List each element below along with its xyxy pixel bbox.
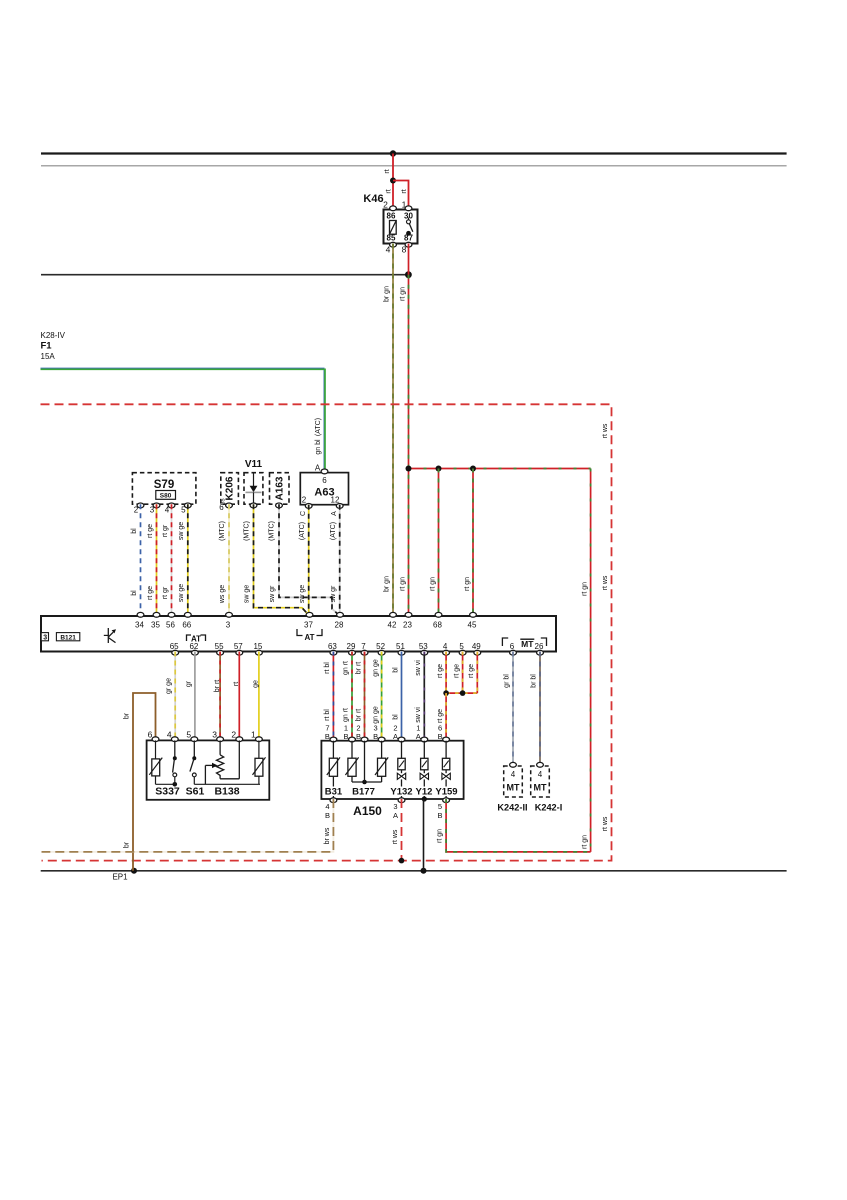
- svg-text:rt ge: rt ge: [147, 524, 154, 538]
- svg-text:A163: A163: [275, 476, 286, 500]
- svg-text:Y132: Y132: [390, 787, 412, 798]
- svg-text:gn bl: gn bl: [315, 439, 322, 455]
- svg-text:Y159: Y159: [435, 787, 457, 798]
- svg-text:rt ws: rt ws: [602, 575, 609, 590]
- svg-text:2: 2: [302, 496, 307, 505]
- svg-text:42: 42: [388, 621, 397, 630]
- svg-text:S61: S61: [186, 786, 205, 798]
- svg-text:6: 6: [510, 642, 515, 651]
- svg-text:bl: bl: [131, 590, 138, 596]
- svg-text:br rt: br rt: [355, 709, 362, 722]
- svg-text:B31: B31: [325, 787, 343, 798]
- svg-text:rt gr: rt gr: [162, 524, 169, 537]
- svg-text:V11: V11: [245, 459, 263, 470]
- svg-text:gr bl: gr bl: [503, 674, 510, 688]
- svg-text:br rt: br rt: [214, 680, 221, 693]
- svg-text:rt gn: rt gn: [399, 577, 406, 591]
- svg-text:br ws: br ws: [324, 827, 331, 844]
- svg-text:B: B: [343, 732, 348, 741]
- svg-text:7: 7: [361, 642, 366, 651]
- svg-text:B: B: [325, 811, 330, 820]
- svg-text:4: 4: [443, 642, 448, 651]
- svg-text:rt gn: rt gn: [581, 582, 588, 596]
- svg-text:rt gr: rt gr: [162, 586, 169, 599]
- svg-text:28: 28: [335, 621, 344, 630]
- svg-text:S337: S337: [155, 786, 180, 798]
- svg-text:br: br: [124, 712, 131, 719]
- svg-text:rt gn: rt gn: [430, 577, 437, 591]
- svg-text:sw ge: sw ge: [299, 585, 306, 603]
- svg-text:3: 3: [43, 634, 47, 641]
- svg-text:rt ge: rt ge: [454, 664, 461, 678]
- svg-text:2: 2: [231, 730, 236, 740]
- svg-text:MT: MT: [507, 783, 520, 793]
- svg-text:5: 5: [438, 802, 442, 811]
- svg-text:MT: MT: [534, 783, 547, 793]
- svg-text:rt: rt: [384, 169, 391, 173]
- svg-text:15: 15: [253, 642, 262, 651]
- svg-text:rt gn: rt gn: [437, 829, 444, 843]
- svg-text:3: 3: [393, 802, 397, 811]
- svg-text:35: 35: [151, 621, 160, 630]
- svg-text:6: 6: [148, 730, 153, 740]
- svg-text:K28-IV: K28-IV: [41, 331, 66, 340]
- svg-text:K206: K206: [225, 476, 236, 500]
- svg-text:(ATC): (ATC): [299, 522, 306, 540]
- svg-text:A: A: [416, 732, 421, 741]
- svg-text:rt: rt: [233, 682, 240, 686]
- svg-text:6: 6: [219, 503, 224, 512]
- svg-text:65: 65: [170, 642, 179, 651]
- svg-text:B: B: [437, 811, 442, 820]
- svg-text:68: 68: [433, 621, 442, 630]
- svg-text:4: 4: [538, 770, 543, 779]
- svg-text:4: 4: [165, 506, 170, 515]
- svg-text:rt: rt: [386, 189, 393, 193]
- svg-text:86: 86: [387, 212, 396, 221]
- svg-text:br rt: br rt: [355, 662, 362, 675]
- svg-text:rt gn: rt gn: [581, 835, 588, 849]
- svg-text:gr ge: gr ge: [166, 678, 173, 694]
- svg-text:rt gn: rt gn: [464, 577, 471, 591]
- svg-text:3: 3: [150, 506, 155, 515]
- svg-text:AT: AT: [304, 633, 314, 642]
- svg-text:EP1: EP1: [112, 873, 128, 882]
- svg-text:ge: ge: [252, 680, 259, 688]
- svg-text:A150: A150: [353, 804, 382, 818]
- svg-text:AT: AT: [191, 635, 201, 644]
- svg-text:(ATC): (ATC): [330, 522, 337, 540]
- svg-text:52: 52: [376, 642, 385, 651]
- svg-text:B177: B177: [352, 787, 375, 798]
- svg-text:sw ge: sw ge: [178, 522, 185, 540]
- svg-text:sw gr: sw gr: [330, 585, 337, 602]
- svg-text:3: 3: [212, 730, 217, 740]
- svg-text:sw gr: sw gr: [269, 585, 276, 602]
- svg-text:sw ge: sw ge: [244, 585, 251, 603]
- svg-text:rt ge: rt ge: [147, 586, 154, 600]
- svg-text:8: 8: [402, 245, 407, 255]
- svg-text:B: B: [438, 732, 443, 741]
- svg-text:B: B: [356, 732, 361, 741]
- svg-text:55: 55: [215, 642, 224, 651]
- svg-text:sw vi: sw vi: [415, 660, 422, 676]
- svg-text:37: 37: [304, 621, 313, 630]
- svg-text:B: B: [373, 732, 378, 741]
- svg-text:56: 56: [166, 621, 175, 630]
- svg-text:23: 23: [403, 621, 412, 630]
- svg-text:34: 34: [135, 621, 144, 630]
- svg-text:4: 4: [325, 802, 329, 811]
- svg-text:bl: bl: [131, 528, 138, 534]
- svg-text:F1: F1: [41, 341, 53, 352]
- svg-text:(MTC): (MTC): [269, 521, 276, 541]
- svg-text:rt ge: rt ge: [437, 709, 444, 723]
- svg-text:B: B: [325, 732, 330, 741]
- svg-text:4: 4: [386, 245, 391, 255]
- svg-text:12: 12: [331, 496, 340, 505]
- svg-text:br bl: br bl: [530, 674, 537, 688]
- svg-text:(ATC): (ATC): [315, 418, 322, 436]
- svg-text:6: 6: [322, 476, 327, 485]
- svg-text:rt ge: rt ge: [468, 664, 475, 678]
- svg-text:br: br: [124, 841, 131, 848]
- svg-text:26: 26: [535, 642, 544, 651]
- svg-text:br gn: br gn: [384, 576, 391, 592]
- svg-text:rt bl: rt bl: [324, 709, 331, 721]
- svg-text:gn rt: gn rt: [343, 708, 350, 722]
- svg-text:66: 66: [182, 621, 191, 630]
- svg-text:51: 51: [396, 642, 405, 651]
- svg-text:ws ge: ws ge: [219, 585, 226, 604]
- svg-text:49: 49: [472, 642, 481, 651]
- svg-text:4: 4: [167, 730, 172, 740]
- svg-text:sw vi: sw vi: [415, 707, 422, 723]
- svg-text:rt gn: rt gn: [399, 287, 406, 301]
- svg-text:rt ws: rt ws: [602, 816, 609, 831]
- svg-text:Y12: Y12: [416, 787, 433, 798]
- svg-text:4: 4: [511, 770, 516, 779]
- svg-text:rt: rt: [401, 189, 408, 193]
- svg-text:5: 5: [181, 506, 186, 515]
- svg-text:bl: bl: [392, 714, 399, 720]
- svg-text:K242-I: K242-I: [535, 803, 563, 813]
- svg-text:45: 45: [468, 621, 477, 630]
- svg-text:gn rt: gn rt: [343, 661, 350, 675]
- svg-text:5: 5: [186, 730, 191, 740]
- svg-text:A: A: [393, 732, 398, 741]
- svg-text:K46: K46: [363, 193, 383, 205]
- svg-text:br gn: br gn: [384, 286, 391, 302]
- svg-text:gn ge: gn ge: [372, 706, 379, 724]
- svg-text:53: 53: [419, 642, 428, 651]
- svg-text:29: 29: [347, 642, 356, 651]
- svg-text:gr: gr: [185, 680, 192, 687]
- svg-text:K242-II: K242-II: [497, 803, 527, 813]
- svg-text:(MTC): (MTC): [219, 521, 226, 541]
- svg-text:57: 57: [234, 642, 243, 651]
- svg-text:A: A: [393, 811, 398, 820]
- svg-text:rt ws: rt ws: [602, 423, 609, 438]
- svg-text:2: 2: [134, 506, 139, 515]
- svg-text:bl: bl: [392, 667, 399, 673]
- svg-text:S79: S79: [154, 479, 174, 491]
- svg-text:2: 2: [383, 200, 388, 210]
- svg-text:5: 5: [459, 642, 464, 651]
- svg-text:S80: S80: [160, 492, 172, 499]
- svg-text:A: A: [315, 464, 321, 473]
- svg-text:rt ge: rt ge: [437, 664, 444, 678]
- svg-text:3: 3: [226, 621, 231, 630]
- svg-text:sw ge: sw ge: [178, 584, 185, 602]
- svg-text:B121: B121: [60, 634, 76, 641]
- svg-text:A: A: [331, 511, 338, 516]
- svg-text:(MTC): (MTC): [243, 521, 250, 541]
- svg-text:15A: 15A: [41, 352, 56, 361]
- svg-text:C: C: [300, 511, 307, 516]
- svg-text:rt bl: rt bl: [324, 662, 331, 674]
- svg-text:MT: MT: [521, 639, 534, 649]
- svg-text:gn ge: gn ge: [372, 659, 379, 677]
- svg-text:rt ws: rt ws: [392, 829, 399, 844]
- svg-text:B138: B138: [214, 786, 239, 798]
- svg-text:63: 63: [328, 642, 337, 651]
- svg-text:1: 1: [251, 730, 256, 740]
